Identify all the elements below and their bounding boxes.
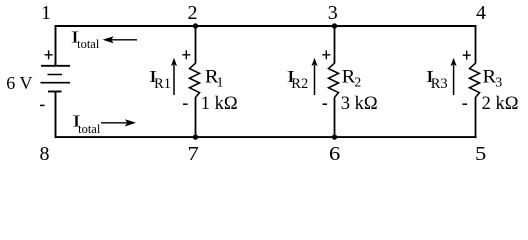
svg-text:total: total [78, 122, 101, 136]
svg-text:6: 6 [329, 143, 340, 165]
arrow I_total bottom (pointing right) [101, 122, 127, 124]
battery B1 plate long [41, 82, 71, 84]
resistor R3 zigzag [470, 63, 480, 97]
resistor R1 zigzag [190, 63, 200, 97]
node 7 junction dot [193, 134, 198, 139]
wire R3 branch top (node 4 to R3) [475, 25, 477, 63]
wire R2 branch top (node 3 to R2) [334, 25, 336, 63]
wire battery branch bottom [55, 92, 57, 139]
svg-text:1 kΩ: 1 kΩ [201, 94, 238, 114]
arrow I_R2 (pointing up) [314, 65, 316, 96]
svg-text:3 kΩ: 3 kΩ [341, 94, 378, 114]
svg-text:7: 7 [188, 143, 199, 165]
node 2 junction dot [193, 23, 198, 28]
node 3 junction dot [332, 23, 337, 28]
resistor R2 zigzag [329, 63, 339, 97]
battery B1 plate short [48, 74, 63, 76]
svg-text:1: 1 [217, 76, 224, 91]
svg-text:8: 8 [40, 143, 50, 165]
svg-text:R1: R1 [154, 76, 171, 92]
svg-text:2: 2 [354, 76, 361, 91]
svg-text:total: total [77, 37, 100, 51]
battery - sign [40, 104, 45, 106]
wire R2 branch bottom (R2 to node 6) [334, 97, 336, 138]
svg-text:R3: R3 [431, 76, 448, 92]
wire bottom rail from node 8 to node 5 [55, 136, 477, 138]
R2 - sign [323, 103, 328, 105]
svg-text:3: 3 [495, 76, 502, 91]
node 6 junction dot [332, 134, 337, 139]
R3 + sign [463, 51, 471, 60]
svg-text:R2: R2 [291, 76, 308, 92]
arrow I_R3 (pointing up) [453, 65, 455, 96]
wire R1 branch top (node 2 to R1) [195, 25, 197, 63]
arrow I_R1 (pointing up) [173, 65, 175, 96]
R2 + sign [322, 50, 330, 59]
svg-text:4: 4 [476, 2, 486, 24]
svg-text:2 kΩ: 2 kΩ [482, 94, 519, 114]
svg-text:5: 5 [475, 143, 486, 165]
R3 - sign [463, 103, 468, 105]
svg-text:6 V: 6 V [6, 73, 32, 93]
wire top rail from node 1 to node 4 [55, 25, 477, 27]
svg-text:2: 2 [188, 2, 198, 24]
svg-text:3: 3 [328, 2, 338, 24]
svg-text:1: 1 [41, 2, 51, 24]
wire R1 branch bottom (R1 to node 7) [195, 97, 197, 138]
battery B1 plate long top (+) [41, 65, 70, 67]
arrow I_total top (pointing left) [110, 39, 137, 41]
wire R3 branch bottom (R3 to node 5) [475, 97, 477, 138]
battery + sign [45, 50, 53, 59]
R1 + sign [182, 50, 190, 59]
battery B1 plate short bottom (-) [48, 91, 62, 93]
R1 - sign [183, 103, 188, 105]
wire battery branch top [55, 25, 57, 66]
